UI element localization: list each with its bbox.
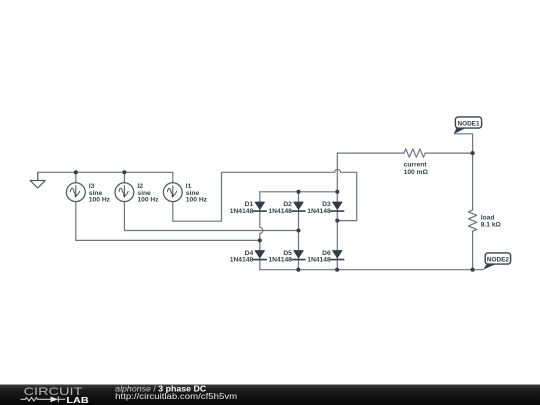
current source I1 [163,183,182,202]
junction D3 top rail [335,190,339,194]
wire I1 bottom to node C with hop over D3 column [173,169,357,221]
diode D2 [292,202,305,211]
wire bottom rail D4-D5-D6 to NODE2 [260,269,483,271]
current source I2 [115,183,134,202]
svg-text:1N4148: 1N4148 [230,257,254,264]
node flag NODE2 [483,253,511,270]
wire resistor to right column [425,152,472,154]
diode D4 [253,251,266,260]
diode D6 [331,251,344,260]
wire I2 top stub [123,172,125,183]
junction current resistor right [471,151,475,155]
svg-text:load: load [481,214,495,221]
svg-text:100 Hz: 100 Hz [186,197,208,204]
svg-text:8.1 kΩ: 8.1 kΩ [481,222,502,229]
wire D1-D4 column with hop over I2 wire [260,192,263,270]
svg-text:NODE1: NODE1 [457,120,479,127]
svg-text:http://circuitlab.com/cf5h5vm: http://circuitlab.com/cf5h5vm [115,392,237,401]
logo wire with resistor and diode [21,396,66,402]
junction D2 top rail [296,190,300,194]
junction D6 bottom rail [335,268,339,272]
wire I3 top stub [75,172,77,183]
wire bridge top rail D1-D2-D3 [260,191,338,193]
junction D5 bottom rail [296,268,300,272]
svg-text:current: current [404,162,428,169]
svg-text:1N4148: 1N4148 [268,208,292,215]
logo diode triangle [51,397,59,403]
svg-text:1N4148: 1N4148 [307,257,331,264]
svg-text:100 mΩ: 100 mΩ [404,169,429,176]
diode D5 [292,251,305,260]
junction I3 top [74,170,78,174]
junction node C (I1 to D3/D6) [335,219,339,223]
ground [30,172,45,188]
svg-text:100 Hz: 100 Hz [137,197,159,204]
junction node A (I3 to D1/D4) [258,238,262,242]
svg-text:1N4148: 1N4148 [268,257,292,264]
wire top rail from ground to I1 [38,171,173,173]
diode D1 [253,202,266,211]
resistor "current" 100 mOhm zigzag [404,149,425,157]
wire I2 bottom to node B [124,201,298,230]
wire NODE1 to right column [455,134,473,153]
wire D2-D5 column [298,192,300,270]
svg-text:NODE2: NODE2 [487,256,509,263]
resistor "load" 8.1 kOhm zigzag [468,210,476,231]
current source I3 [66,183,85,202]
svg-text:LAB: LAB [66,396,88,405]
svg-text:1N4148: 1N4148 [230,208,254,215]
wire D3-D6 column [336,192,338,270]
wire load to bottom rail [472,231,474,270]
wire right column down to load [472,153,474,210]
svg-text:100 Hz: 100 Hz [89,197,111,204]
footer bar [0,385,540,405]
wire D3 column up to current resistor [337,153,404,192]
wire I1 top stub [172,172,174,183]
wire I3 bottom to node A [76,201,260,240]
diode D3 [331,202,344,211]
node flag NODE1 [454,117,482,134]
junction I2 top [122,170,126,174]
junction load bottom rail [471,268,475,272]
junction node B (I2 to D2/D5) [296,228,300,232]
svg-text:1N4148: 1N4148 [307,208,331,215]
